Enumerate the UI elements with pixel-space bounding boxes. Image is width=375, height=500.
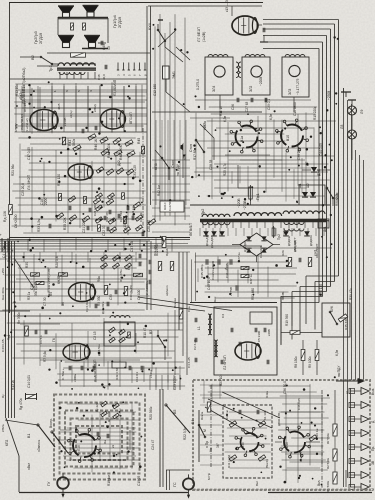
svg-text:С23 100п: С23 100п: [173, 376, 177, 390]
svg-text:R7 5,6к: R7 5,6к: [43, 351, 47, 362]
svg-text:С5 3300: С5 3300: [257, 330, 261, 342]
svg-text:R3 1к: R3 1к: [27, 291, 31, 300]
svg-text:Воспр.: Воспр.: [49, 418, 53, 428]
svg-text:Rн 330к: Rн 330к: [17, 312, 21, 324]
svg-text:С45 10,0: С45 10,0: [207, 277, 211, 290]
svg-text:Д6Д,10К: Д6Д,10К: [293, 240, 297, 252]
svg-text:о Пр: о Пр: [205, 441, 209, 448]
svg-text:С12 180: С12 180: [153, 84, 157, 96]
svg-text:R25 4,7к: R25 4,7к: [223, 163, 227, 176]
svg-text:ЗЛ4: ЗЛ4: [212, 86, 216, 92]
svg-text:(1х2В): (1х2В): [202, 32, 206, 42]
svg-text:Г6: Г6: [52, 338, 56, 342]
svg-text:на зв.: на зв.: [281, 291, 285, 300]
svg-text:С27 63: С27 63: [245, 101, 249, 112]
svg-text:хлучу: хлучу: [14, 123, 18, 132]
svg-text:С22 33: С22 33: [102, 225, 106, 236]
svg-text:Др1: Др1: [323, 226, 327, 232]
svg-text:R50 2,2м: R50 2,2м: [335, 193, 339, 206]
svg-text:(т+2лб+2): (т+2лб+2): [25, 118, 29, 132]
svg-text:С31 0,25: С31 0,25: [133, 165, 137, 178]
svg-text:С48: С48: [97, 74, 101, 80]
svg-text:Л6 6И1П: Л6 6И1П: [189, 222, 193, 236]
svg-text:С2 15: С2 15: [93, 331, 97, 340]
svg-text:Тл1: Тл1: [7, 334, 11, 340]
svg-text:R48 290К: R48 290К: [119, 145, 123, 160]
svg-text:R40: R40: [241, 442, 245, 448]
svg-text:Rу 22К: Rу 22К: [95, 402, 99, 412]
svg-text:Rн: Rн: [103, 440, 107, 444]
svg-text:к40В: к40В: [267, 329, 271, 336]
svg-text:R12 10к: R12 10к: [15, 84, 19, 96]
svg-text:В1: В1: [27, 434, 31, 438]
svg-text:Rсв+70к: Rсв+70к: [155, 244, 159, 256]
svg-text:С20 510: С20 510: [147, 220, 151, 232]
svg-text:С44 0,05: С44 0,05: [319, 143, 323, 156]
svg-text:R44б 1м: R44б 1м: [315, 429, 319, 440]
svg-text:ЭМ1: ЭМ1: [172, 71, 176, 79]
svg-text:R13 2к: R13 2к: [11, 379, 15, 390]
svg-text:В6: В6: [61, 302, 65, 306]
svg-text:Вкл: Вкл: [255, 481, 259, 486]
svg-text:С24 47: С24 47: [151, 439, 155, 450]
svg-text:КП1: КП1: [183, 154, 187, 160]
svg-text:Пр2: Пр2: [277, 234, 281, 240]
svg-text:ГУ: ГУ: [47, 481, 51, 486]
svg-text:R9 100к: R9 100к: [308, 356, 312, 368]
svg-text:+250В: +250В: [327, 91, 331, 100]
svg-text:R16 270к: R16 270к: [119, 269, 123, 282]
svg-text:R5 330: R5 330: [97, 295, 101, 306]
svg-text:Б4: Б4: [191, 420, 195, 424]
svg-text:6,3в: 6,3в: [269, 114, 273, 120]
svg-text:С3: С3: [221, 314, 225, 318]
svg-text:Л3,БП114П: Л3,БП114П: [20, 114, 24, 130]
svg-text:С34 к400В: С34 к400В: [225, 263, 229, 278]
svg-text:0-275-0: 0-275-0: [196, 79, 200, 90]
svg-text:С23 510: С23 510: [119, 211, 123, 222]
svg-text:С17 0,05: С17 0,05: [27, 147, 31, 160]
svg-text:М: М: [371, 488, 375, 491]
svg-text:560к: 560к: [72, 138, 76, 146]
svg-text:22: 22: [111, 444, 115, 448]
svg-text:С37 15: С37 15: [130, 241, 134, 252]
svg-text:КУ4: КУ4: [148, 23, 152, 30]
svg-text:R42 1м: R42 1м: [157, 185, 161, 196]
svg-text:Л7 6Е1П: Л7 6Е1П: [197, 27, 201, 42]
svg-text:R35 22К: R35 22К: [63, 217, 67, 230]
svg-text:Л2 6Н1П: Л2 6Н1П: [223, 355, 227, 370]
svg-text:С30 130: С30 130: [319, 284, 323, 296]
svg-text:отключ: отключ: [23, 101, 27, 112]
svg-text:R22 3,3к: R22 3,3к: [183, 427, 187, 440]
svg-text:Д6Д10К: Д6Д10К: [309, 235, 313, 246]
svg-text:40: 40: [107, 46, 111, 50]
svg-text:С13 0,1: С13 0,1: [135, 371, 139, 382]
svg-text:R2 560к: R2 560к: [326, 457, 330, 469]
svg-text:Rсв1к: Rсв1к: [200, 411, 204, 420]
svg-text:С38 25м: С38 25м: [297, 148, 301, 160]
svg-text:~220В: ~220В: [259, 77, 263, 86]
svg-text:Л5: Л5: [49, 292, 53, 296]
svg-text:R42а: R42а: [265, 391, 269, 398]
svg-text:С1 5,1: С1 5,1: [39, 335, 43, 344]
svg-text:оЗапись: оЗапись: [37, 439, 41, 452]
svg-text:R45: R45: [137, 138, 141, 144]
svg-text:~220В: ~220В: [237, 198, 241, 208]
svg-text:ЗЛ2: ЗЛ2: [249, 86, 253, 92]
svg-text:КУ6: КУ6: [330, 306, 334, 312]
svg-text:R32 47к: R32 47к: [105, 211, 109, 222]
svg-text:С4 400к: С4 400к: [2, 245, 6, 258]
svg-text:С43 0,05: С43 0,05: [1, 339, 5, 352]
svg-text:С39: С39: [109, 294, 113, 300]
svg-text:+250: +250: [1, 268, 5, 275]
svg-text:R36 120: R36 120: [57, 174, 61, 186]
svg-text:ЗЛ3: ЗЛ3: [288, 89, 292, 95]
svg-text:R23 10к: R23 10к: [219, 374, 223, 386]
svg-text:М: М: [203, 429, 207, 432]
svg-text:R20 390к: R20 390к: [149, 406, 153, 420]
svg-text:Л4 6Н2П: Л4 6Н2П: [27, 174, 31, 190]
svg-text:С4 6-25: С4 6-25: [187, 357, 191, 368]
svg-text:Др2: Др2: [117, 160, 121, 166]
svg-text:к5л2у: к5л2у: [19, 91, 23, 100]
svg-text:~275В: ~275В: [243, 200, 247, 210]
svg-text:С46 0,05: С46 0,05: [297, 398, 301, 410]
svg-text:С33/34 х400В: С33/34 х400В: [211, 261, 215, 280]
svg-text:R15 220к: R15 220к: [313, 106, 317, 120]
svg-text:R26: R26: [281, 250, 285, 256]
svg-text:АБС/ЛО/2Т: АБС/ЛО/2Т: [315, 243, 319, 258]
svg-text:офherm: офherm: [165, 285, 169, 296]
svg-text:R21 56к: R21 56к: [11, 164, 15, 176]
svg-text:6Н2П: 6Н2П: [57, 275, 61, 284]
svg-text:х400м: х400м: [73, 374, 77, 382]
svg-text:оВкл: оВкл: [27, 463, 31, 470]
svg-text:Л3,ЛБМ0П: Л3,ЛБМ0П: [113, 79, 117, 96]
svg-text:R8 150к: R8 150к: [294, 356, 298, 368]
svg-text:2 +12БВ2а: 2 +12БВ2а: [145, 280, 149, 295]
svg-text:Rвх: Rвх: [213, 296, 217, 302]
svg-text:к1В2а: к1В2а: [203, 121, 207, 130]
svg-text:+С11а: +С11а: [149, 369, 153, 378]
svg-text:R46 1К: R46 1К: [94, 139, 98, 150]
svg-text:Вых.: Вых.: [371, 388, 375, 395]
svg-text:С14 0,01: С14 0,01: [27, 375, 31, 388]
svg-text:хлучу: хлучу: [69, 110, 73, 118]
svg-text:R41 1м6Д: R41 1м6Д: [227, 455, 231, 468]
svg-text:2200: 2200: [44, 197, 48, 205]
svg-text:R37 1к: R37 1к: [249, 274, 253, 284]
svg-text:к2: к2: [345, 391, 349, 394]
svg-text:С32 10,0: С32 10,0: [259, 246, 263, 258]
svg-text:Б4б: Б4б: [285, 442, 289, 448]
svg-text:Пр.: Пр.: [371, 446, 375, 451]
svg-text:С25 20,0: С25 20,0: [21, 183, 25, 196]
svg-text:R33 1,5м: R33 1,5м: [37, 219, 41, 232]
svg-text:С24 100: С24 100: [93, 205, 97, 216]
svg-text:40,0: 40,0: [102, 74, 106, 80]
svg-text:Л8: Л8: [340, 125, 344, 129]
svg-text:4225: 4225: [57, 103, 61, 110]
svg-text:R10 47: R10 47: [143, 327, 147, 338]
svg-text:Др2 20гн: Др2 20гн: [101, 301, 105, 314]
svg-text:Д4а,Д4б: Д4а,Д4б: [243, 240, 247, 252]
svg-text:С29 0,1: С29 0,1: [267, 99, 271, 110]
svg-text:2ГД19: 2ГД19: [117, 16, 122, 28]
svg-text:С28 33: С28 33: [209, 159, 213, 170]
svg-text:Rд 10К: Rд 10К: [3, 211, 7, 222]
svg-text:Стоп: Стоп: [171, 160, 175, 168]
svg-text:ГС: ГС: [173, 482, 177, 487]
svg-text:С25 33: С25 33: [139, 212, 143, 222]
svg-text:С10 6800: С10 6800: [293, 102, 297, 116]
svg-text:Rвх 300к: Rвх 300к: [1, 287, 5, 300]
svg-text:Сх4700к: Сх4700к: [168, 199, 172, 211]
svg-text:+240В: +240В: [63, 117, 67, 126]
svg-text:6,3в: 6,3в: [335, 350, 339, 356]
svg-text:R18 1м: R18 1м: [107, 475, 111, 486]
svg-text:Д2а Д2б: Д2а Д2б: [210, 236, 214, 248]
svg-text:Д6Д1Ж: Д6Д1Ж: [287, 236, 291, 246]
svg-text:С7 30: С7 30: [43, 297, 47, 306]
svg-text:КП2а: КП2а: [1, 424, 5, 432]
svg-text:С19 25: С19 25: [137, 475, 141, 486]
svg-text:L1: L1: [197, 326, 201, 330]
svg-text:Rт 560к: Rт 560к: [326, 433, 330, 444]
svg-text:R30: R30: [25, 262, 29, 268]
svg-text:Ш2: Ш2: [306, 183, 310, 188]
svg-text:В5: В5: [173, 410, 177, 414]
svg-text:на ПДУ: на ПДУ: [337, 365, 341, 377]
svg-text:2ГД19: 2ГД19: [38, 32, 43, 44]
svg-text:В3: В3: [149, 330, 153, 334]
svg-text:Вкл.: Вкл.: [317, 480, 321, 486]
svg-text:Л9: Л9: [360, 110, 364, 114]
svg-text:R39 47к: R39 47к: [349, 288, 353, 300]
svg-text:С9 100: С9 100: [137, 289, 141, 300]
svg-text:Rд 470к: Rд 470к: [19, 398, 23, 410]
svg-text:Д1а Д1б: Д1а Д1б: [205, 234, 209, 246]
svg-text:R31 1м: R31 1м: [131, 206, 135, 216]
svg-text:С49: С49: [102, 44, 106, 50]
svg-text:С35 100р: С35 100р: [200, 264, 204, 278]
svg-text:КП2: КП2: [5, 440, 9, 446]
svg-text:Rу 1000: Rу 1000: [107, 410, 111, 422]
svg-text:к13 — 34: к13 — 34: [225, 0, 229, 12]
svg-text:В1б: В1б: [286, 135, 290, 141]
svg-text:Rб10: Rб10: [163, 202, 167, 210]
svg-text:~9-177-275: ~9-177-275: [296, 78, 300, 95]
svg-text:М Пр: М Пр: [207, 473, 211, 480]
svg-text:R19 390: R19 390: [285, 314, 289, 326]
svg-text:С40 (6+15): С40 (6+15): [129, 285, 133, 300]
svg-text:Rу: Rу: [1, 394, 5, 398]
svg-text:кЗВ2у: кЗВ2у: [93, 103, 97, 112]
svg-text:R11 1к: R11 1к: [219, 106, 223, 116]
svg-text:R35 330: R35 330: [344, 318, 348, 330]
